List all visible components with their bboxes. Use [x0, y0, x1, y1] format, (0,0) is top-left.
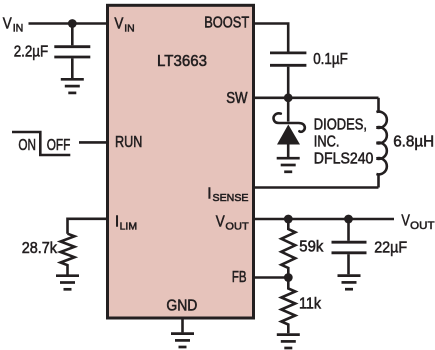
- svg-text:V: V: [401, 213, 410, 230]
- capacitor 22uF: [332, 219, 367, 274]
- node VOUT label: [401, 213, 434, 232]
- resistor 28.7k: [61, 234, 75, 275]
- svg-text:FB: FB: [232, 269, 247, 286]
- svg-text:I: I: [207, 185, 211, 202]
- wire GND pin: [181, 319, 184, 333]
- junction VOUT / 22uF: [344, 215, 353, 224]
- pin label RUN: [115, 134, 142, 151]
- ground 2.2uF: [61, 79, 84, 93]
- ground 22uF: [338, 276, 361, 290]
- ground diode: [277, 158, 300, 172]
- diode DFLS240 (Schottky): [274, 98, 305, 157]
- ground 11k: [277, 335, 300, 348]
- svg-text:IN: IN: [13, 23, 24, 35]
- wire FB: [254, 276, 288, 279]
- value label 59k: [299, 239, 323, 256]
- pin label VIN: [114, 15, 134, 34]
- svg-text:ON: ON: [18, 137, 36, 154]
- svg-text:SW: SW: [226, 90, 248, 107]
- wire VOUT rail: [254, 218, 394, 221]
- op-amp U1 LT3663 body: [108, 5, 254, 318]
- svg-text:DFLS240: DFLS240: [314, 150, 374, 167]
- svg-text:LT3663: LT3663: [157, 53, 207, 70]
- svg-text:V: V: [114, 15, 124, 32]
- svg-text:OUT: OUT: [225, 220, 249, 232]
- svg-text:SENSE: SENSE: [213, 192, 249, 204]
- junction VOUT / 59k: [284, 215, 293, 224]
- wire RUN: [79, 141, 106, 144]
- capacitor 0.1uF: [270, 53, 306, 98]
- svg-text:22µF: 22µF: [374, 240, 407, 257]
- svg-text:LIM: LIM: [120, 220, 138, 232]
- junction SW / diode: [284, 93, 293, 102]
- pin label ILIM: [115, 213, 137, 232]
- inductor 6.8uH: [376, 98, 386, 188]
- resistor 11k: [281, 278, 295, 334]
- node VIN label: [3, 16, 24, 35]
- value label 22uF: [374, 240, 407, 257]
- capacitor 2.2uF: [54, 24, 90, 79]
- svg-text:BOOST: BOOST: [204, 14, 249, 31]
- ground 28.7k: [56, 276, 79, 290]
- value label 6.8uH: [393, 134, 434, 151]
- value label 28.7k: [22, 240, 58, 257]
- svg-text:OFF: OFF: [47, 137, 71, 154]
- svg-text:0.1µF: 0.1µF: [313, 51, 348, 68]
- value label 2.2uF: [14, 43, 49, 60]
- value label 11k: [299, 295, 321, 312]
- resistor 59k: [281, 219, 295, 278]
- junction FB / 59k / 11k: [284, 273, 293, 282]
- pin label BOOST: [204, 14, 249, 31]
- value label 0.1uF: [313, 51, 348, 68]
- pin label FB: [232, 269, 247, 286]
- pin label SW: [226, 90, 248, 107]
- wire SW: [254, 97, 379, 100]
- svg-text:OUT: OUT: [410, 220, 435, 232]
- svg-text:GND: GND: [166, 298, 197, 315]
- pin label VOUT: [216, 214, 250, 233]
- svg-text:I: I: [115, 213, 119, 230]
- wire BOOST: [254, 24, 288, 52]
- svg-text:DIODES,: DIODES,: [314, 116, 367, 133]
- svg-text:RUN: RUN: [115, 134, 142, 151]
- pin label ISENSE: [207, 185, 248, 204]
- svg-text:2.2µF: 2.2µF: [14, 43, 49, 60]
- svg-text:V: V: [216, 214, 226, 231]
- svg-text:V: V: [3, 16, 12, 33]
- svg-text:INC.: INC.: [314, 133, 340, 150]
- wire ILIM: [68, 219, 107, 234]
- node ON/OFF step symbol: [12, 132, 70, 155]
- wire ISENSE: [254, 186, 379, 189]
- label DIODES, INC. DFLS240: [314, 116, 374, 167]
- svg-text:IN: IN: [124, 22, 134, 34]
- svg-text:6.8µH: 6.8µH: [393, 134, 434, 151]
- svg-text:11k: 11k: [299, 295, 321, 312]
- ground GND pin: [171, 334, 194, 347]
- pin label GND: [166, 298, 197, 315]
- wire VIN input: [29, 22, 107, 25]
- svg-text:28.7k: 28.7k: [22, 240, 58, 257]
- svg-text:59k: 59k: [299, 239, 323, 256]
- junction VIN / 2.2uF: [68, 19, 77, 28]
